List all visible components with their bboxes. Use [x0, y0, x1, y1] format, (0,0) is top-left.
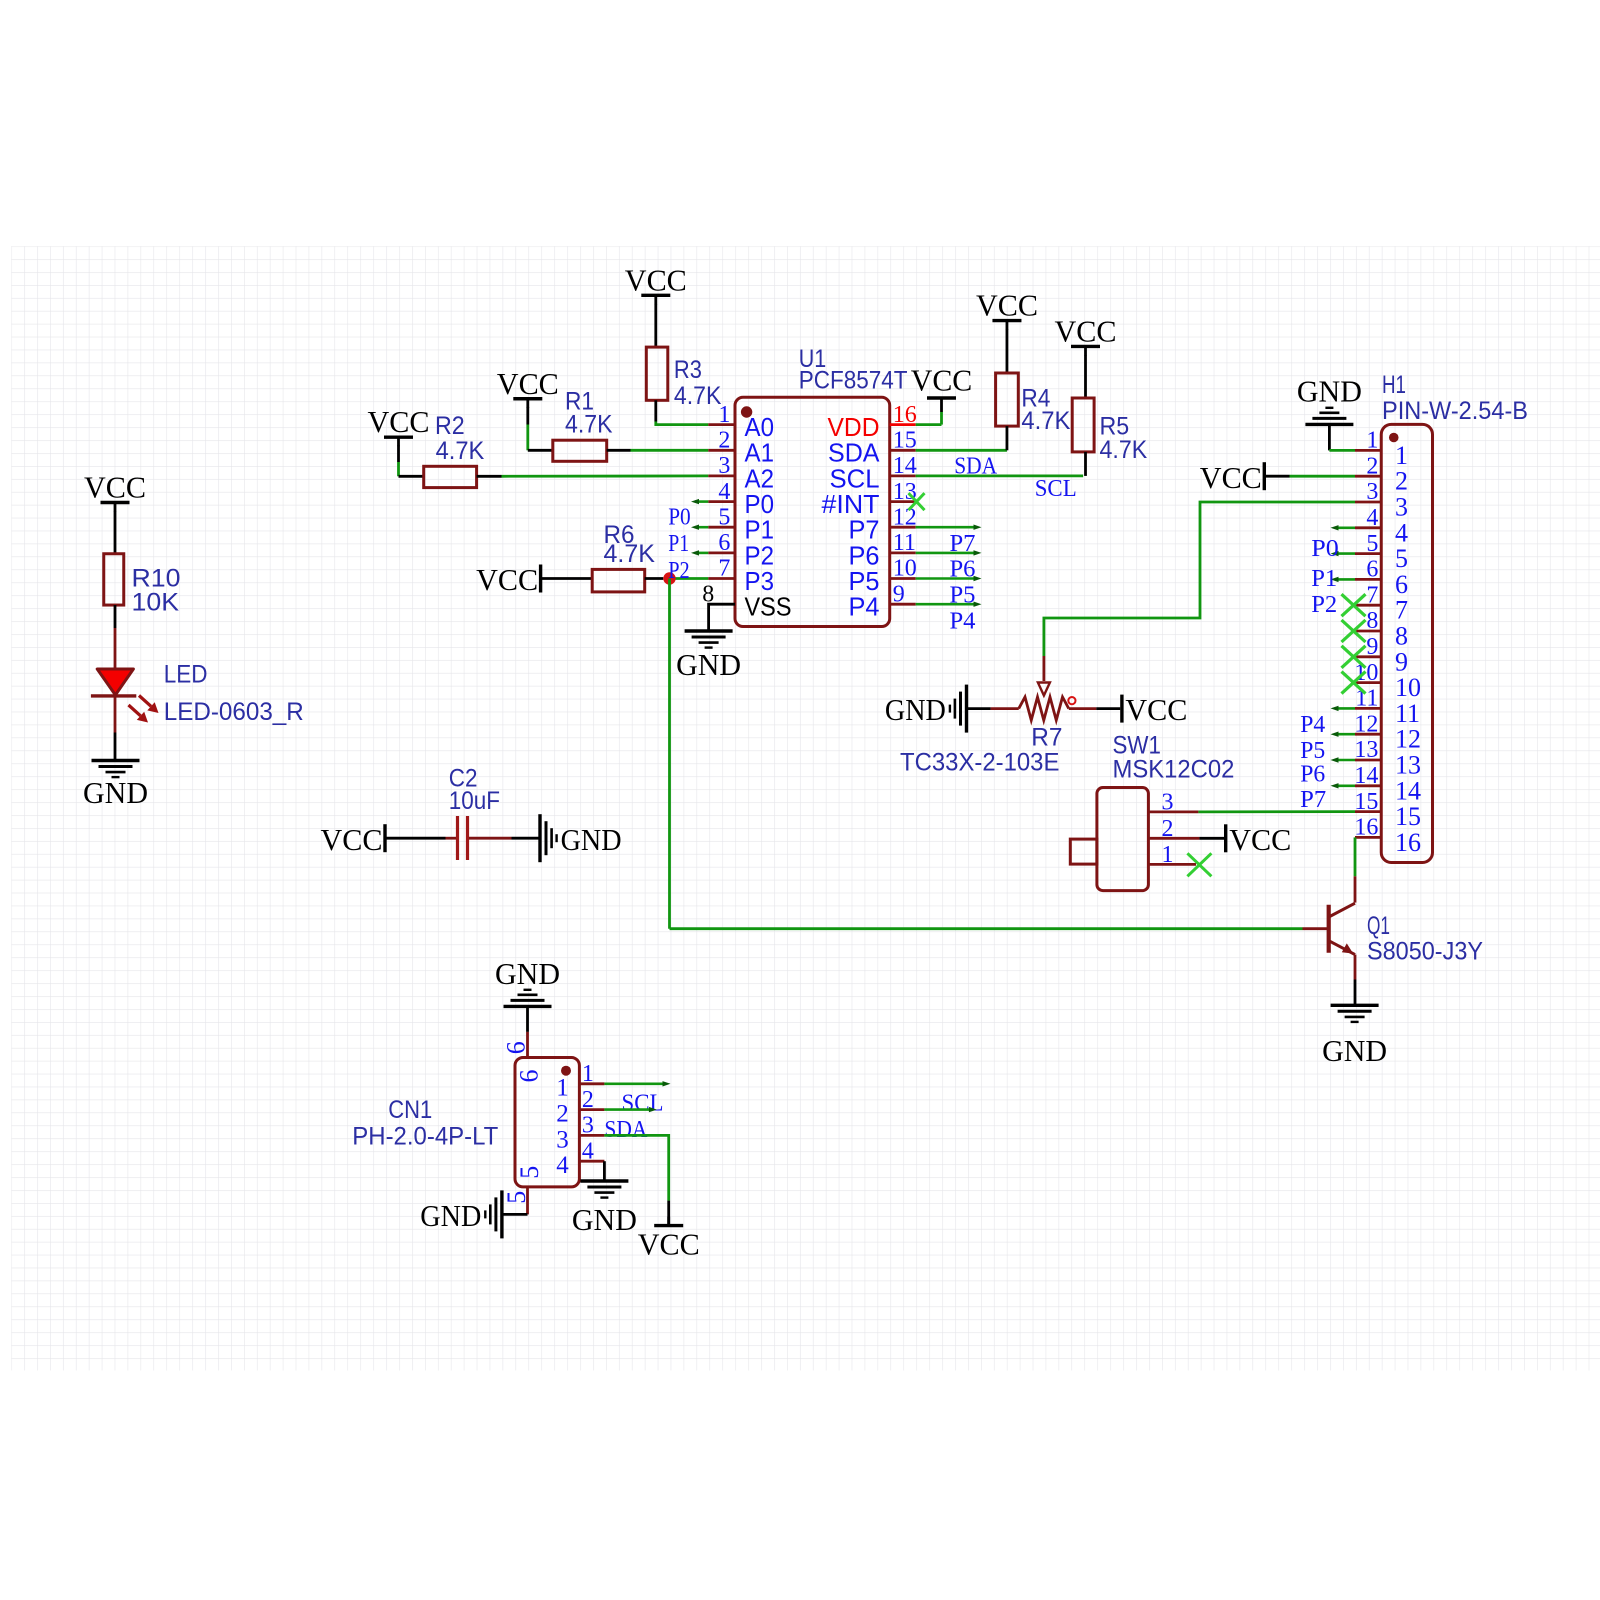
svg-text:2: 2 — [718, 428, 730, 454]
resistor R4 — [996, 373, 1019, 426]
svg-text:11: 11 — [893, 530, 916, 556]
svg-text:15: 15 — [893, 428, 917, 454]
wire H1 pin 5 dangling — [1331, 551, 1356, 556]
wire H1 pin 14 dangling — [1331, 783, 1356, 788]
svg-text:1: 1 — [1366, 428, 1378, 454]
svg-text:6: 6 — [502, 1041, 531, 1054]
svg-text:R3: R3 — [674, 356, 702, 384]
svg-text:VCC: VCC — [497, 366, 559, 401]
U1 pin 12 stub — [890, 526, 916, 529]
power flag VCC (LED branch) — [84, 470, 146, 512]
CN1 pin 4 stub — [579, 1160, 604, 1163]
CN1 pin1 marker dot — [561, 1066, 571, 1076]
U1 pin16 stub VDD — [890, 423, 916, 426]
H1 pin 5 stub — [1355, 552, 1381, 555]
ground (Q1) — [1322, 1005, 1387, 1068]
potentiometer R7 — [1019, 697, 1076, 720]
label H1 PIN-W-2.54-B — [1382, 371, 1528, 425]
no-connect X H1 pin 7 — [1342, 594, 1366, 616]
resistor R3 — [646, 347, 668, 400]
svg-text:VCC: VCC — [625, 262, 687, 297]
svg-text:4.7K: 4.7K — [565, 411, 613, 439]
svg-text:7: 7 — [718, 556, 730, 582]
svg-text:SCL: SCL — [622, 1091, 664, 1117]
no-connect X U1 pin13 — [909, 493, 925, 510]
svg-text:P1: P1 — [1311, 566, 1337, 592]
ground (CN1 pin4) — [572, 1181, 637, 1237]
svg-text:1: 1 — [718, 402, 730, 428]
wire R7 to VCC — [1069, 707, 1120, 710]
no-connect X H1 pin 10 — [1342, 672, 1366, 694]
svg-text:VCC: VCC — [1200, 460, 1262, 495]
svg-text:8: 8 — [702, 582, 714, 608]
svg-text:13: 13 — [1354, 737, 1378, 763]
svg-text:GND: GND — [495, 956, 560, 991]
wire R1 to U1 pin2 — [607, 449, 709, 452]
svg-text:2: 2 — [1366, 453, 1378, 479]
ground (CN1 top) — [495, 956, 560, 1006]
resistor R2 — [424, 466, 477, 487]
U1 pin 13 stub — [890, 500, 916, 503]
wire H1 pin 11 dangling — [1331, 706, 1356, 711]
svg-text:12: 12 — [1395, 725, 1421, 754]
power flag VCC (R1) — [497, 366, 559, 408]
label CN1 PH-2.0-4P-LT — [352, 1096, 498, 1151]
wire VCC to R2 — [399, 446, 424, 477]
ground (CN1 pin5) — [420, 1190, 502, 1238]
svg-text:10uF: 10uF — [449, 787, 500, 815]
svg-text:PCF8574T: PCF8574T — [799, 367, 908, 395]
svg-text:R7: R7 — [1031, 723, 1062, 751]
capacitor C2 — [458, 816, 468, 860]
resistor R10 — [104, 554, 124, 605]
svg-text:3: 3 — [718, 453, 730, 479]
no-connect X H1 pin 9 — [1342, 646, 1366, 668]
svg-text:14: 14 — [1395, 776, 1421, 805]
wire LED to GND — [114, 696, 117, 760]
svg-text:PIN-W-2.54-B: PIN-W-2.54-B — [1382, 397, 1528, 425]
svg-text:16: 16 — [1395, 828, 1421, 857]
svg-text:4.7K: 4.7K — [436, 437, 485, 465]
wire VCC to R3 — [654, 304, 657, 347]
wire node P3 down to Q1 base row — [668, 579, 671, 929]
H1 pin 14 stub — [1355, 784, 1381, 787]
svg-text:4: 4 — [718, 479, 730, 505]
ground (R7) — [885, 685, 967, 733]
power flag VCC (R6) — [476, 562, 541, 597]
label R10 10K — [132, 564, 181, 616]
wire R10 to LED — [114, 605, 117, 669]
LED emission arrows — [129, 696, 159, 723]
svg-text:VCC: VCC — [1055, 313, 1117, 348]
power flag VCC (R5) — [1055, 313, 1117, 355]
svg-text:VCC: VCC — [638, 1227, 700, 1262]
svg-text:GND: GND — [1322, 1033, 1387, 1068]
svg-text:3: 3 — [1395, 493, 1408, 522]
H1 pin 1 stub — [1355, 449, 1381, 452]
power flag VCC (CN1 pin3) — [638, 1217, 700, 1262]
wire H1 pin3 to R7 wiper — [1044, 502, 1355, 656]
svg-text:3: 3 — [556, 1126, 569, 1153]
wire U1 pin 10 dangling P5 — [916, 576, 982, 581]
svg-text:12: 12 — [1354, 711, 1378, 737]
svg-text:P1: P1 — [668, 531, 689, 557]
CN1 pin 1 stub — [579, 1082, 604, 1085]
label Q1 S8050-J3Y — [1367, 912, 1483, 965]
wire U1 pin 4 dangling — [691, 499, 708, 504]
U1 pin 3 stub — [708, 474, 735, 477]
H1 pin 8 stub — [1355, 630, 1381, 633]
svg-text:3: 3 — [1162, 790, 1174, 816]
wire CN1 pin3 to VCC — [604, 1135, 668, 1225]
svg-text:4.7K: 4.7K — [604, 540, 656, 568]
wire U1 pin 9 dangling P4 — [916, 602, 982, 607]
H1 pin 10 stub — [1355, 681, 1381, 684]
svg-text:14: 14 — [1354, 763, 1378, 789]
op-amp U1 body PCF8574T — [735, 397, 890, 626]
svg-text:15: 15 — [1354, 789, 1378, 815]
label R5 4.7K — [1100, 413, 1148, 465]
H1 pin 4 stub — [1355, 526, 1381, 529]
svg-text:GND: GND — [420, 1198, 481, 1233]
connector CN1 body PH-2.0-4P-LT — [515, 1058, 579, 1187]
U1 pin 14 stub — [890, 474, 916, 477]
svg-text:P2: P2 — [1311, 592, 1337, 618]
power flag VCC (SW1) — [1226, 822, 1292, 857]
H1 pin 6 stub — [1355, 578, 1381, 581]
no-connect X SW1 pin1 — [1187, 853, 1211, 876]
wire H1 pin 4 dangling — [1331, 525, 1356, 530]
U1 pin 11 stub — [890, 552, 916, 555]
wire U1 pin 5 dangling — [691, 525, 708, 530]
wire H1 pin16 to Q1 collector — [1354, 837, 1357, 902]
wire R6 to node P3 — [645, 577, 664, 580]
wire C2 to GND — [469, 837, 540, 840]
label R3 4.7K — [674, 356, 722, 410]
svg-text:11: 11 — [1395, 699, 1420, 728]
svg-text:GND: GND — [1297, 374, 1362, 409]
wire H1 pin 6 dangling — [1331, 577, 1356, 582]
svg-text:P0: P0 — [668, 505, 691, 531]
wire R3 to U1 pin1 — [656, 400, 709, 424]
wire CN1 pin5 to GND — [502, 1187, 528, 1215]
svg-text:P0: P0 — [1311, 536, 1339, 562]
connector H1 body PIN-W-2.54-B — [1381, 424, 1432, 862]
label R6 4.7K — [604, 521, 656, 568]
svg-text:VCC: VCC — [976, 288, 1038, 323]
label SW1 MSK12C02 — [1113, 732, 1235, 784]
svg-text:10: 10 — [1395, 673, 1421, 702]
svg-text:5: 5 — [515, 1166, 544, 1179]
wire H1 pin 12 dangling — [1331, 732, 1356, 737]
svg-text:SDA: SDA — [604, 1117, 648, 1143]
svg-text:2: 2 — [582, 1087, 594, 1113]
svg-text:GND: GND — [561, 822, 622, 857]
svg-text:GND: GND — [885, 692, 946, 727]
ground (H1 pin1) — [1297, 374, 1362, 425]
ground (C2) — [540, 814, 622, 862]
wire U1 pin8 VSS to GND — [709, 604, 735, 631]
wire VCC to C2 — [385, 837, 456, 840]
wire VCC to R10 — [114, 511, 117, 554]
H1 pin1 marker dot — [1389, 433, 1399, 443]
svg-text:4: 4 — [1395, 518, 1408, 547]
svg-text:S8050-J3Y: S8050-J3Y — [1367, 937, 1483, 965]
svg-text:1: 1 — [556, 1075, 569, 1102]
wire Q1 base horizontal — [670, 927, 1303, 930]
svg-text:8: 8 — [1395, 622, 1408, 651]
svg-text:6: 6 — [1366, 557, 1378, 583]
label R4 4.7K — [1021, 385, 1070, 436]
switch SW1 body — [1070, 788, 1148, 891]
svg-text:6: 6 — [515, 1070, 544, 1083]
transistor Q1 S8050 — [1329, 903, 1355, 954]
node P3 junction — [663, 572, 675, 584]
svg-text:3: 3 — [1366, 479, 1378, 505]
svg-text:7: 7 — [1366, 582, 1378, 608]
svg-text:VCC: VCC — [84, 470, 146, 505]
svg-text:6: 6 — [718, 530, 730, 556]
svg-text:12: 12 — [893, 504, 917, 530]
svg-text:4.7K: 4.7K — [1100, 436, 1148, 464]
SW1 pin1 stub — [1148, 863, 1196, 866]
svg-text:1: 1 — [1395, 441, 1408, 470]
svg-text:GND: GND — [83, 775, 148, 810]
svg-text:6: 6 — [1395, 570, 1408, 599]
power flag VCC (U1 VDD) — [911, 363, 973, 399]
svg-text:1: 1 — [1162, 842, 1174, 868]
wire U1 pin15 SDA net — [916, 449, 1007, 452]
wire U1 pin 11 dangling P6 — [916, 550, 982, 555]
svg-text:16: 16 — [1354, 815, 1378, 841]
wire U1 pin 6 dangling — [691, 550, 708, 555]
svg-text:9: 9 — [893, 581, 905, 607]
wire VCC to R6 — [541, 577, 593, 580]
label R1 4.7K — [565, 388, 613, 439]
H1 pin 12 stub — [1355, 733, 1381, 736]
resistor R1 — [553, 440, 607, 461]
svg-text:GND: GND — [572, 1202, 637, 1237]
svg-text:2: 2 — [556, 1101, 569, 1128]
power flag VCC (R3) — [625, 262, 687, 304]
svg-text:9: 9 — [1395, 647, 1408, 676]
U1 pin 5 stub — [708, 526, 735, 529]
svg-text:P7: P7 — [1300, 787, 1326, 813]
wire CN1 pin1 dangling — [604, 1081, 670, 1086]
H1 pin 16 stub — [1355, 836, 1381, 839]
svg-text:P5: P5 — [1300, 738, 1325, 764]
svg-text:4: 4 — [1366, 505, 1378, 531]
svg-text:R2: R2 — [435, 412, 465, 440]
svg-text:LED-0603_R: LED-0603_R — [164, 698, 304, 726]
wire U1 pin16 to VCC — [916, 398, 942, 425]
svg-text:MSK12C02: MSK12C02 — [1113, 756, 1235, 784]
svg-text:9: 9 — [1366, 634, 1378, 660]
H1 pin 2 stub — [1355, 475, 1381, 478]
U1 pin 4 stub — [708, 500, 735, 503]
LED diode — [91, 669, 136, 696]
wire CN1 pin4 to GND — [603, 1161, 606, 1181]
svg-text:P4: P4 — [1300, 712, 1325, 738]
resistor R6 — [592, 569, 645, 592]
label R2 4.7K — [435, 412, 485, 465]
svg-text:P4: P4 — [849, 592, 880, 622]
svg-text:4.7K: 4.7K — [1021, 407, 1070, 435]
label U1 PCF8574T — [799, 345, 908, 395]
wire CN1 pin2 dangling — [604, 1107, 657, 1112]
svg-text:1: 1 — [582, 1061, 594, 1087]
svg-text:2: 2 — [1395, 467, 1408, 496]
H1 pin 3 stub — [1355, 501, 1381, 504]
U1 pin 6 stub — [708, 552, 735, 555]
ground (LED branch) — [83, 761, 148, 811]
label R7 TC33X-2-103E — [900, 723, 1063, 776]
svg-text:4: 4 — [556, 1152, 569, 1179]
svg-text:VCC: VCC — [321, 822, 383, 857]
svg-text:5: 5 — [1395, 544, 1408, 573]
svg-text:VCC: VCC — [476, 562, 538, 597]
power flag VCC (C2) — [321, 822, 386, 857]
svg-text:TC33X-2-103E: TC33X-2-103E — [900, 748, 1059, 776]
H1 pin 9 stub — [1355, 655, 1381, 658]
svg-text:14: 14 — [893, 453, 917, 479]
wire H1 pin 13 dangling — [1331, 757, 1356, 762]
wire VCC to R1 — [528, 407, 553, 450]
svg-text:P4: P4 — [950, 609, 976, 635]
power flag VCC (R2) — [368, 404, 430, 446]
wire Q1 base stub — [1303, 927, 1329, 930]
U1 pin 7 stub — [708, 577, 735, 580]
label C2 10uF — [449, 764, 500, 815]
svg-text:13: 13 — [1395, 751, 1421, 780]
wire VCC to R4 — [1006, 329, 1009, 373]
power flag VCC (H1 pin2) — [1200, 460, 1265, 495]
wire GND to CN1 pin6 — [526, 1006, 529, 1057]
U1 pin 10 stub — [890, 577, 916, 580]
no-connect X H1 pin 8 — [1342, 620, 1366, 642]
svg-text:LED: LED — [164, 661, 208, 689]
wire node P3 to U1 pin7 — [670, 577, 709, 580]
H1 pin 15 stub — [1355, 810, 1381, 813]
wire R5 to SCL net — [1084, 452, 1087, 476]
svg-text:15: 15 — [1395, 802, 1421, 831]
svg-text:VCC: VCC — [368, 404, 430, 439]
svg-text:16: 16 — [893, 402, 917, 428]
wire Q1 emitter to GND — [1354, 955, 1357, 1006]
svg-text:SCL: SCL — [1035, 476, 1077, 502]
svg-text:13: 13 — [893, 479, 917, 505]
wire SW1 pin3 to H1 pin15 (P7) — [1198, 810, 1355, 813]
CN1 pin 3 stub — [579, 1134, 604, 1137]
wire VCC to R5 — [1084, 355, 1087, 398]
svg-text:P6: P6 — [1300, 761, 1325, 787]
svg-text:P2: P2 — [668, 558, 690, 584]
power flag VCC (R4) — [976, 288, 1038, 330]
svg-text:10: 10 — [893, 556, 917, 582]
svg-text:4.7K: 4.7K — [674, 382, 722, 410]
svg-text:VCC: VCC — [911, 363, 973, 398]
svg-text:8: 8 — [1366, 608, 1378, 634]
CN1 pin 2 stub — [579, 1108, 604, 1111]
SW1 pin3 stub — [1148, 811, 1198, 814]
svg-text:4: 4 — [582, 1139, 594, 1165]
U1 pin 1 stub — [708, 423, 735, 426]
svg-text:2: 2 — [1162, 816, 1174, 842]
wire U1 pin 12 dangling P7 — [916, 525, 982, 530]
svg-text:3: 3 — [582, 1113, 594, 1139]
svg-text:VCC: VCC — [1125, 692, 1187, 727]
U1 pin1 marker dot — [741, 406, 752, 417]
svg-text:GND: GND — [676, 647, 741, 682]
power flag VCC (R7) — [1122, 692, 1188, 727]
svg-text:Q1: Q1 — [1367, 912, 1390, 940]
wire GND to H1 pin1 — [1329, 424, 1355, 450]
svg-text:H1: H1 — [1382, 371, 1406, 399]
R7 wiper arrow — [1038, 656, 1050, 696]
resistor R5 — [1072, 398, 1094, 452]
U1 pin 15 stub — [890, 449, 916, 452]
label LED LED-0603_R — [164, 661, 304, 727]
wire GND to R7 — [967, 707, 1019, 710]
svg-text:10K: 10K — [132, 588, 180, 616]
wire R2 to U1 pin3 — [477, 474, 709, 477]
wire R4 to SDA net — [1006, 426, 1009, 450]
svg-text:5: 5 — [718, 504, 730, 530]
wire U1 pin14 SCL net — [916, 474, 1083, 477]
SW1 pin2 stub — [1148, 837, 1225, 840]
svg-text:VSS: VSS — [745, 592, 792, 622]
ground (U1 VSS) — [676, 631, 741, 682]
svg-text:VCC: VCC — [1229, 822, 1291, 857]
H1 pin 11 stub — [1355, 707, 1381, 710]
H1 pin 13 stub — [1355, 759, 1381, 762]
U1 pin 9 stub — [890, 603, 916, 606]
svg-text:CN1: CN1 — [388, 1096, 432, 1124]
wire VCC to H1 pin2 — [1264, 475, 1355, 478]
svg-text:7: 7 — [1395, 596, 1408, 625]
svg-text:5: 5 — [1366, 531, 1378, 557]
U1 pin 2 stub — [708, 449, 735, 452]
H1 pin 7 stub — [1355, 604, 1381, 607]
svg-text:PH-2.0-4P-LT: PH-2.0-4P-LT — [352, 1123, 498, 1151]
